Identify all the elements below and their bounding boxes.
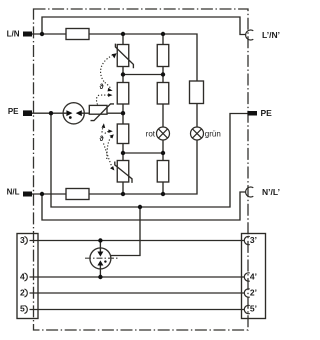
svg-text:4: 4: [20, 271, 25, 281]
svg-text:PE: PE: [261, 108, 273, 118]
svg-text:rot: rot: [146, 129, 156, 138]
svg-text:2’: 2’: [250, 287, 257, 297]
svg-text:PE: PE: [8, 107, 19, 116]
svg-text:3: 3: [20, 235, 25, 245]
svg-text:3’: 3’: [250, 235, 257, 245]
svg-text:ϑ: ϑ: [100, 136, 105, 143]
svg-text:5’: 5’: [250, 303, 257, 313]
svg-text:5: 5: [20, 303, 25, 313]
svg-text:N/L: N/L: [7, 188, 20, 197]
svg-text:4’: 4’: [250, 271, 257, 281]
svg-text:L/N: L/N: [7, 29, 20, 38]
svg-text:N’/L’: N’/L’: [262, 187, 280, 197]
svg-text:L’/N’: L’/N’: [262, 30, 280, 40]
svg-text:2: 2: [20, 287, 25, 297]
svg-text:grün: grün: [205, 129, 221, 138]
svg-text:ϑ: ϑ: [100, 84, 105, 91]
